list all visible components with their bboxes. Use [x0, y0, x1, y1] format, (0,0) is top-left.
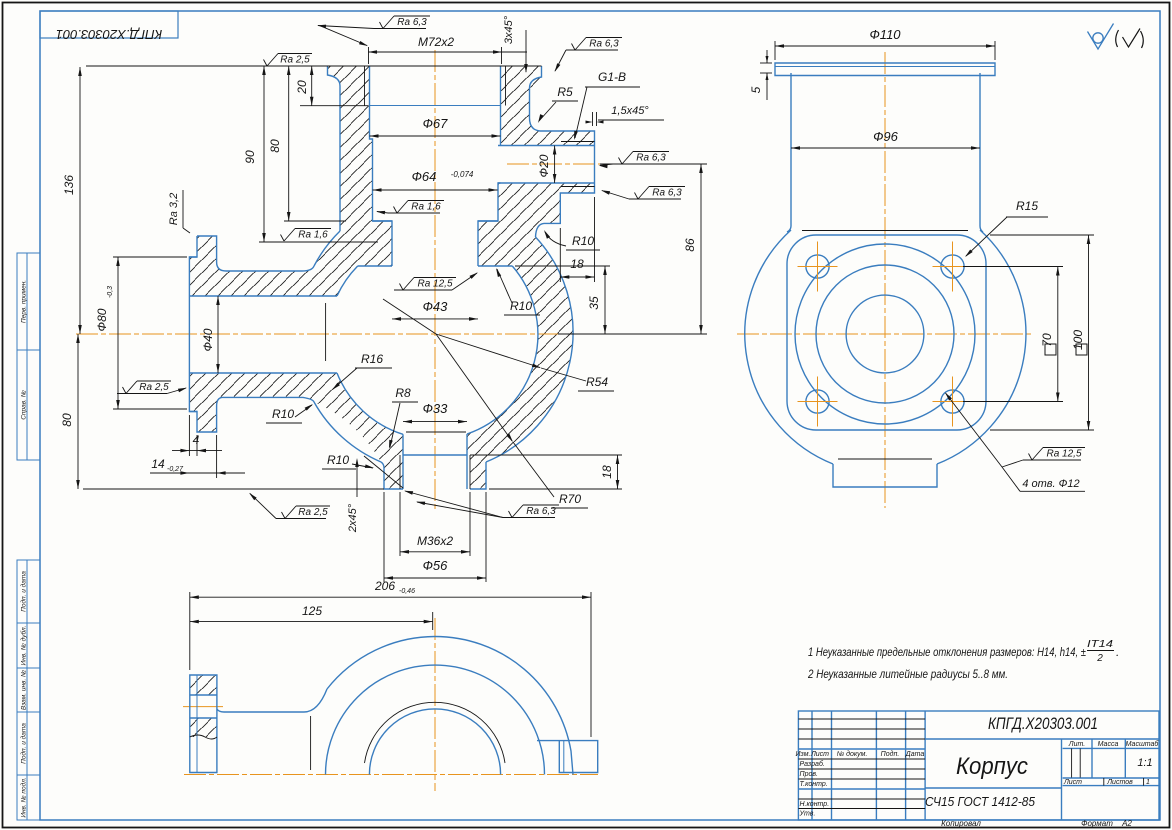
left flange outline — [197, 236, 314, 271]
svg-text:4 отв. Ф12: 4 отв. Ф12 — [1022, 478, 1079, 490]
R54 leader — [383, 299, 436, 334]
Ra 6.3 port bottom — [629, 198, 681, 200]
dim 125 — [432, 612, 434, 630]
svg-text:5: 5 — [749, 86, 763, 93]
dim 90 — [259, 241, 378, 243]
svg-text:1:1: 1:1 — [1137, 757, 1152, 769]
svg-text:Ra 6,3: Ra 6,3 — [652, 188, 682, 199]
dim phi56 — [383, 492, 385, 582]
Ra 12.5 right view — [1023, 459, 1081, 461]
dim 80 bottom — [77, 334, 79, 489]
svg-text:90: 90 — [243, 150, 257, 164]
svg-text:Масштаб: Масштаб — [1126, 740, 1160, 748]
bottom boss outline — [381, 462, 403, 489]
dim phi110 — [774, 41, 776, 60]
svg-text:18: 18 — [570, 257, 584, 271]
svg-text:35: 35 — [587, 296, 601, 310]
dim M36x2 — [399, 492, 401, 556]
svg-text:СЧ15 ГОСТ 1412-85: СЧ15 ГОСТ 1412-85 — [925, 794, 1036, 809]
svg-text:-0,46: -0,46 — [399, 588, 415, 595]
R70 leader — [436, 334, 512, 441]
svg-text:Корпус: Корпус — [956, 753, 1028, 780]
web bore phi40 — [189, 295, 337, 297]
svg-text:2 Неуказанные литейные радиусы: 2 Неуказанные литейные радиусы 5..8 мм. — [807, 667, 1008, 681]
svg-text:Ra 3,2: Ra 3,2 — [168, 193, 180, 225]
right view circles — [795, 244, 975, 424]
svg-text:R54: R54 — [586, 375, 608, 389]
svg-text:2х45°: 2х45° — [347, 503, 359, 533]
svg-text:Ra 6,3: Ra 6,3 — [397, 17, 427, 28]
svg-text:1: 1 — [1146, 779, 1150, 786]
Ra 6.3 port axis — [613, 163, 665, 165]
svg-text:86: 86 — [683, 238, 697, 252]
svg-text:R70: R70 — [559, 492, 581, 506]
svg-text:4: 4 — [193, 433, 200, 447]
dim phi33 — [403, 421, 467, 423]
main view orange centerlines — [76, 333, 566, 335]
svg-text:Ф67: Ф67 — [423, 116, 449, 131]
svg-text:125: 125 — [302, 604, 322, 618]
dim 80 top — [284, 220, 346, 222]
bottom view tangent line — [310, 716, 312, 770]
svg-text:Ф40: Ф40 — [201, 328, 215, 351]
svg-text:G1-В: G1-В — [598, 70, 626, 84]
dim 18 boss — [470, 454, 622, 456]
svg-text:Утв.: Утв. — [799, 811, 816, 818]
main view hatch right shell from port to bottom boss — [467, 183, 595, 489]
svg-text:R5: R5 — [557, 85, 573, 99]
svg-text:Ra 1,6: Ra 1,6 — [411, 202, 441, 213]
svg-text:2: 2 — [1096, 653, 1103, 664]
svg-text:КПГД.Х20303.001: КПГД.Х20303.001 — [988, 714, 1098, 733]
svg-text:3х45°: 3х45° — [503, 15, 515, 44]
bottom view flange hatch — [190, 675, 217, 695]
svg-text:А2: А2 — [1121, 819, 1132, 828]
svg-text:Ra 2,5: Ra 2,5 — [280, 55, 310, 66]
svg-text:100: 100 — [1071, 330, 1085, 350]
dim 206 — [189, 592, 191, 670]
top right roughness symbols — [1088, 24, 1114, 50]
dim phi67 — [370, 135, 501, 137]
svg-text:R10: R10 — [572, 234, 594, 248]
svg-text:R8: R8 — [395, 386, 411, 400]
bottom view port boss — [537, 741, 598, 773]
outer sphere R70 arcs — [314, 231, 340, 266]
svg-text:80: 80 — [60, 413, 74, 427]
svg-text:Ф56: Ф56 — [423, 558, 449, 573]
dim phi43 — [392, 318, 478, 320]
Ra2.5 top-left — [264, 60, 268, 67]
svg-text:Изм.: Изм. — [796, 751, 811, 758]
port thread G1-B lines — [561, 141, 595, 143]
thread relief line — [300, 105, 368, 107]
right view bottom boss — [833, 464, 937, 487]
svg-text:Лист: Лист — [810, 751, 829, 758]
boss bore M36/phi33 — [402, 434, 404, 489]
svg-text:R10: R10 — [272, 407, 294, 421]
svg-text:Ra 12,5: Ra 12,5 — [1046, 449, 1081, 460]
right view outer sphere arcs — [745, 230, 833, 464]
svg-text:70: 70 — [1040, 333, 1054, 347]
svg-text:Перв. примен.: Перв. примен. — [21, 280, 28, 323]
dim 18 port — [559, 228, 561, 282]
svg-text:14: 14 — [151, 457, 165, 471]
svg-text:R16: R16 — [361, 352, 383, 366]
left margin boxes — [17, 253, 40, 350]
side port outline — [530, 118, 595, 237]
main view hatch lower-left web and boss — [189, 373, 403, 489]
svg-text:Подп.: Подп. — [881, 750, 900, 758]
dim 136 — [79, 67, 81, 334]
svg-text:Н.контр.: Н.контр. — [800, 801, 830, 808]
main view bore phi67/phi64 walls — [370, 66, 393, 266]
bottom view inner arc R109 — [326, 665, 545, 774]
right view bolt holes — [806, 255, 829, 278]
Ra 1.6 in bore — [388, 212, 440, 214]
Ra 12.5 cavity — [394, 289, 452, 291]
cavity shelf lines — [358, 265, 392, 267]
dim 35 — [515, 265, 610, 267]
svg-text:Ф20: Ф20 — [537, 154, 551, 177]
Ra 3.2 flange — [182, 190, 184, 228]
svg-text:Разраб.: Разраб. — [800, 760, 825, 768]
svg-text:Взам. инв. №: Взам. инв. № — [21, 670, 28, 710]
dim M72x2 — [86, 65, 542, 67]
svg-text:Ra 12,5: Ra 12,5 — [417, 279, 452, 290]
svg-text:-0,074: -0,074 — [451, 170, 474, 179]
bore floor lines — [373, 220, 393, 222]
flange break line — [190, 735, 217, 739]
svg-text:Подп. и дата: Подп. и дата — [20, 723, 28, 764]
svg-text:Ф33: Ф33 — [423, 401, 449, 416]
svg-text:Пров.: Пров. — [800, 771, 819, 778]
dim square100 — [990, 234, 1094, 236]
svg-text:-0,27: -0,27 — [167, 466, 184, 473]
svg-text:№ докум.: № докум. — [837, 750, 868, 758]
Ra 2.5 bottom — [276, 518, 326, 520]
right view orange centerlines — [884, 52, 886, 508]
Ra 6.3 port top — [566, 49, 618, 51]
Ra 6.3 boss leaders — [503, 517, 555, 519]
svg-text:КПГД.Х20303.001: КПГД.Х20303.001 — [56, 27, 162, 42]
svg-text:IT14: IT14 — [1087, 639, 1114, 650]
bottom view flange outline — [190, 675, 217, 773]
bottom view bore arc phi67 — [369, 709, 500, 775]
svg-text:Лист: Лист — [1063, 779, 1082, 786]
Ra6.3 top leader — [374, 28, 426, 30]
4 holes leader — [946, 393, 1003, 467]
dim 86 — [600, 163, 707, 165]
svg-text:Подп. и дата: Подп. и дата — [20, 571, 28, 612]
svg-text:Масса: Масса — [1098, 741, 1119, 748]
bottom view thread arc M72 black — [365, 702, 506, 763]
svg-text:Инв. № дубл.: Инв. № дубл. — [20, 625, 28, 665]
svg-text:Ф43: Ф43 — [423, 299, 449, 314]
svg-text:Справ. №: Справ. № — [21, 390, 28, 420]
svg-text:Ra 2,5: Ra 2,5 — [139, 382, 169, 393]
svg-text:Ra 6,3: Ra 6,3 — [589, 39, 619, 50]
dim 14-0.27 — [216, 435, 218, 478]
main view part outline - top cylinder outer — [328, 66, 341, 231]
main view hatch left wall and floor — [189, 66, 392, 296]
port bore phi20 — [498, 145, 595, 147]
dim phi20 port — [554, 146, 556, 184]
svg-text:80: 80 — [268, 139, 282, 153]
svg-text:Т.контр.: Т.контр. — [800, 781, 828, 788]
dim phi64 — [373, 189, 498, 191]
svg-text:R15: R15 — [1016, 199, 1038, 213]
svg-text:Листов: Листов — [1106, 779, 1133, 786]
thread M72 lines — [364, 66, 366, 106]
svg-text:Ra 1,6: Ra 1,6 — [298, 230, 328, 241]
svg-text:Ra 6,3: Ra 6,3 — [636, 153, 666, 164]
svg-text:.: . — [1116, 645, 1119, 659]
Ra 1.6 left — [281, 235, 285, 242]
right view square flange R15 — [787, 235, 986, 430]
title block — [798, 711, 1159, 820]
dim phi80 — [113, 256, 187, 258]
svg-text:206: 206 — [374, 579, 395, 593]
Ra 2.5 left flange — [117, 393, 167, 395]
svg-text:Лит.: Лит. — [1068, 741, 1085, 748]
svg-text:20: 20 — [295, 80, 309, 95]
svg-text:R10: R10 — [510, 299, 532, 313]
svg-text:Инв. № подл.: Инв. № подл. — [20, 777, 28, 818]
svg-text:136: 136 — [62, 175, 76, 195]
top-left stamp box with flipped designation — [40, 11, 178, 38]
svg-text:R10: R10 — [327, 453, 349, 467]
svg-text:1 Неуказанные предельные откло: 1 Неуказанные предельные отклонения разм… — [808, 645, 1086, 659]
svg-text:М72х2: М72х2 — [418, 35, 454, 49]
inner sphere R54 arcs — [337, 266, 358, 296]
svg-text:-0,3: -0,3 — [107, 286, 114, 298]
svg-text:18: 18 — [600, 465, 614, 479]
dim square70 — [963, 266, 1063, 268]
main view hatch right wall above port — [501, 66, 595, 146]
svg-text:Дата: Дата — [905, 751, 925, 758]
svg-text:Формат: Формат — [1081, 819, 1113, 828]
dim 20 — [311, 66, 313, 106]
svg-text:1,5х45°: 1,5х45° — [611, 105, 649, 117]
dim phi40 — [217, 296, 219, 373]
bottom view orange centerlines — [184, 774, 598, 776]
dim 5 — [760, 62, 772, 64]
dim phi96 — [791, 147, 980, 149]
svg-text:Ra 2,5: Ra 2,5 — [298, 507, 328, 518]
right view flat edge line — [802, 230, 968, 232]
right view neck phi96 — [787, 73, 791, 232]
svg-text:Ф64: Ф64 — [412, 169, 437, 184]
bottom view outer arc R140 — [327, 637, 573, 775]
svg-text:Ф110: Ф110 — [869, 27, 901, 42]
bottom view web line — [217, 689, 327, 712]
svg-text:Ф80: Ф80 — [95, 308, 109, 331]
chamfer leader 2x45 — [364, 456, 403, 488]
svg-text:Ф96: Ф96 — [873, 129, 899, 144]
svg-text:Копировал: Копировал — [941, 819, 981, 828]
dim 4 — [188, 415, 190, 456]
svg-text:М36х2: М36х2 — [417, 534, 453, 548]
right view top flange phi110 — [775, 63, 995, 76]
tangent line web — [325, 303, 327, 361]
